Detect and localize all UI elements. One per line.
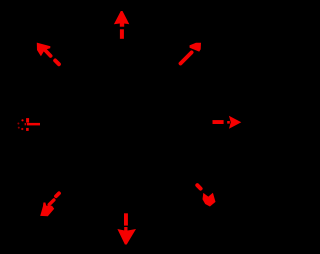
arrow S (down, dashed) — [117, 213, 136, 244]
arrow N (up, dashed) — [114, 11, 129, 39]
arrow NE (up-right, dashed) — [181, 43, 202, 64]
arrow SE (down-right, dashed) — [197, 185, 215, 206]
arrow E (right, dashed) — [213, 116, 242, 129]
arrow SW (down-left, dashed) — [40, 193, 59, 216]
arrow W (left, dashed, head partly occluded) — [17, 118, 40, 131]
arrow NW (up-left, dashed) — [37, 43, 59, 65]
